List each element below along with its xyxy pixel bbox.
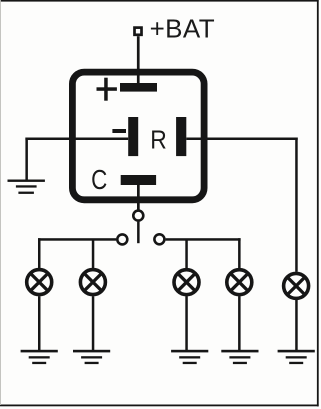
terminal bar + bbox=[120, 83, 157, 92]
plus symbol bbox=[97, 78, 117, 101]
ground under L4 bbox=[221, 350, 258, 364]
lamp L3 bbox=[174, 270, 199, 295]
wire left branch bbox=[38, 238, 116, 241]
switch lever stub bbox=[137, 222, 140, 244]
wire drop lamp L1 bbox=[38, 238, 41, 269]
border frame top bbox=[0, 0, 319, 2]
ground under L5 bbox=[278, 350, 315, 364]
minus symbol bbox=[112, 129, 126, 133]
terminal bar R (right plate) bbox=[176, 117, 186, 156]
ground under L3 bbox=[171, 350, 208, 364]
wire lamp L1 to ground bbox=[38, 296, 41, 350]
wire C down bbox=[137, 185, 140, 211]
wire lamp L4 to ground bbox=[238, 296, 241, 350]
border frame left bbox=[0, 0, 2, 405]
ground under L1 bbox=[21, 350, 58, 364]
terminal bar - (left plate) bbox=[128, 117, 138, 156]
wire left (minus) bbox=[25, 138, 128, 141]
lamp L2 bbox=[80, 270, 105, 295]
relay box U1 bbox=[72, 72, 204, 200]
ground left bbox=[8, 180, 45, 194]
switch left contact circle bbox=[117, 234, 127, 244]
wire +BAT to relay bbox=[137, 36, 140, 84]
svg-text:+BAT: +BAT bbox=[150, 14, 215, 44]
ground under L2 bbox=[73, 350, 110, 364]
wire drop lamp L3 bbox=[185, 240, 188, 269]
border frame right bbox=[317, 0, 319, 406]
svg-text:C: C bbox=[91, 165, 107, 196]
switch right contact circle bbox=[154, 234, 164, 244]
wire lamp L3 to ground bbox=[185, 296, 188, 350]
wire lamp L5 to ground bbox=[295, 300, 298, 350]
wire lamp L2 to ground bbox=[92, 296, 95, 350]
terminal bar C bbox=[121, 175, 156, 185]
border frame bottom bbox=[0, 405, 319, 407]
lamp L4 bbox=[227, 270, 252, 295]
wire drop lamp L2 bbox=[92, 240, 95, 269]
lamp L5 bbox=[284, 273, 309, 298]
wire R to right lamp bbox=[186, 138, 297, 141]
wire right branch bbox=[166, 238, 241, 241]
battery terminal square bbox=[135, 28, 142, 35]
switch pole contact circle bbox=[133, 211, 143, 221]
wire drop lamp L4 bbox=[238, 238, 241, 269]
svg-text:R: R bbox=[150, 126, 167, 155]
lamp L1 bbox=[27, 270, 52, 295]
